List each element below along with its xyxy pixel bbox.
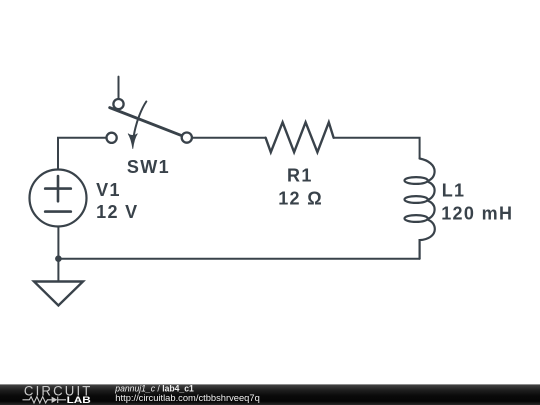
svg-text:V1: V1 xyxy=(96,180,121,200)
svg-text:12 V: 12 V xyxy=(96,202,138,222)
svg-text:SW1: SW1 xyxy=(127,157,170,177)
svg-text:L1: L1 xyxy=(442,180,466,200)
svg-text:R1: R1 xyxy=(287,165,313,185)
svg-text:http://circuitlab.com/ctbbshrv: http://circuitlab.com/ctbbshrveeq7q xyxy=(115,393,259,404)
svg-text:120 mH: 120 mH xyxy=(441,203,513,223)
svg-text:12 Ω: 12 Ω xyxy=(278,189,323,209)
svg-text:LAB: LAB xyxy=(67,395,91,405)
svg-text:pannuj1_c / lab4_c1: pannuj1_c / lab4_c1 xyxy=(114,383,193,393)
